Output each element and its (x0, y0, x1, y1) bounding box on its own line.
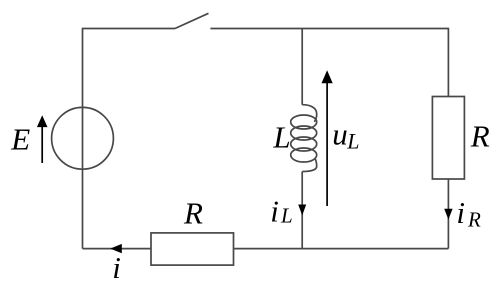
svg-text:L: L (280, 204, 293, 228)
svg-text:R: R (183, 196, 203, 231)
svg-text:i: i (456, 195, 465, 230)
svg-text:E: E (10, 122, 30, 157)
svg-text:i: i (270, 193, 279, 228)
svg-text:u: u (332, 116, 348, 151)
svg-text:R: R (470, 119, 490, 154)
svg-text:L: L (346, 128, 359, 153)
svg-text:i: i (112, 250, 121, 285)
svg-text:R: R (467, 207, 481, 231)
svg-text:L: L (272, 119, 290, 154)
